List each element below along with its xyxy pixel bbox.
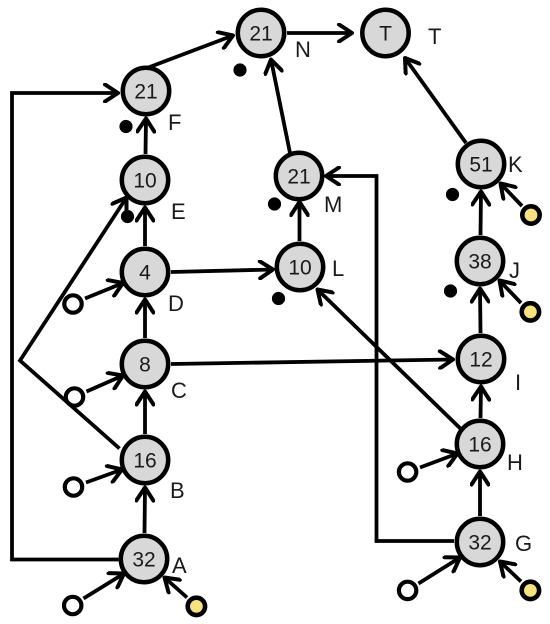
node N	[238, 10, 284, 56]
wire A to F (left routing)	[12, 93, 119, 560]
wire input to G (yellow)	[500, 562, 521, 582]
svg-text:10: 10	[288, 257, 311, 280]
wire I to J	[478, 289, 482, 334]
input terminal to C	[66, 388, 83, 405]
node J	[457, 238, 503, 284]
wire input to J (yellow)	[500, 281, 522, 304]
wire B to C	[143, 392, 147, 435]
wire input to C	[87, 376, 124, 392]
svg-text:16: 16	[133, 450, 156, 473]
svg-text:51: 51	[469, 154, 492, 177]
svg-text:A: A	[172, 553, 187, 578]
svg-text:21: 21	[249, 23, 272, 46]
yellow input terminals	[188, 206, 540, 615]
wire M to N	[271, 60, 290, 154]
node G	[457, 519, 503, 565]
svg-text:32: 32	[468, 532, 491, 555]
svg-text:E: E	[171, 199, 186, 224]
black marker dots	[119, 63, 459, 305]
svg-text:10: 10	[133, 170, 156, 193]
yellow terminal to A	[188, 598, 205, 615]
node H	[457, 421, 503, 467]
svg-text:L: L	[332, 256, 344, 281]
dot near L	[272, 292, 285, 305]
node K	[458, 141, 504, 187]
wire L to M	[298, 202, 302, 241]
svg-text:D: D	[168, 291, 184, 316]
wire N to T	[287, 31, 352, 35]
input terminal to G	[399, 582, 416, 599]
dot near F	[119, 120, 132, 133]
node values	[132, 23, 492, 572]
yellow terminal to G	[522, 582, 539, 599]
node M	[276, 153, 322, 199]
wire C to I	[171, 360, 453, 365]
wire input to G (white)	[419, 558, 461, 584]
input terminal to A	[64, 597, 81, 614]
wire input to A (white)	[84, 574, 125, 599]
svg-text:N: N	[295, 37, 311, 62]
wire input to D	[85, 283, 123, 299]
svg-text:16: 16	[468, 434, 491, 457]
yellow terminal to K	[522, 206, 539, 223]
dot near M	[268, 197, 281, 210]
svg-text:J: J	[509, 258, 520, 283]
dot near J	[444, 284, 457, 297]
input arrows from open/yellow circles	[84, 184, 523, 599]
node E	[122, 157, 168, 203]
wire D to E	[143, 208, 147, 247]
dot near K	[446, 188, 459, 201]
node T	[362, 10, 408, 56]
wire H to L	[318, 290, 467, 435]
white input terminals	[64, 295, 416, 614]
yellow terminal to J	[522, 303, 539, 320]
wire A to B	[143, 488, 147, 534]
dot near N	[233, 63, 246, 76]
wire H to I	[479, 387, 483, 419]
svg-text:21: 21	[287, 166, 310, 189]
node B	[122, 437, 168, 483]
input terminal to D	[64, 295, 81, 312]
svg-text:21: 21	[134, 81, 157, 104]
wire input to B	[86, 470, 122, 483]
wire input to K (yellow)	[501, 184, 523, 207]
wire J to K	[479, 192, 483, 236]
svg-text:I: I	[515, 370, 521, 395]
svg-text:T: T	[428, 24, 441, 49]
svg-text:32: 32	[132, 549, 155, 572]
svg-text:G: G	[515, 531, 532, 556]
wire E to F	[144, 119, 148, 155]
wire B to E (bend routing)	[20, 198, 127, 449]
graph nodes	[121, 10, 504, 582]
svg-text:K: K	[508, 152, 523, 177]
svg-text:F: F	[168, 110, 181, 135]
node L	[277, 244, 323, 290]
wire D to L	[171, 270, 273, 273]
node I	[458, 336, 504, 382]
node C	[122, 341, 168, 387]
wire input to A (yellow)	[165, 578, 188, 598]
wire C to D	[143, 300, 147, 339]
input terminal to B	[65, 478, 82, 495]
wire G to M (routing)	[326, 176, 454, 541]
input terminal to H	[399, 463, 416, 480]
node letter labels	[168, 24, 532, 578]
svg-text:38: 38	[468, 251, 491, 274]
wire K to T	[405, 58, 466, 143]
svg-text:M: M	[324, 192, 342, 217]
svg-text:12: 12	[469, 349, 492, 372]
node F	[123, 68, 169, 114]
svg-text:4: 4	[139, 262, 151, 285]
wire G to H	[478, 472, 482, 517]
svg-text:8: 8	[139, 354, 151, 377]
svg-text:T: T	[379, 23, 392, 46]
svg-text:C: C	[171, 378, 187, 403]
node D	[122, 249, 168, 295]
node A	[121, 536, 167, 582]
wire input to H	[420, 454, 458, 468]
dot near E	[121, 210, 134, 223]
svg-text:H: H	[507, 450, 523, 475]
wire F to N	[147, 36, 233, 69]
svg-text:B: B	[170, 478, 185, 503]
